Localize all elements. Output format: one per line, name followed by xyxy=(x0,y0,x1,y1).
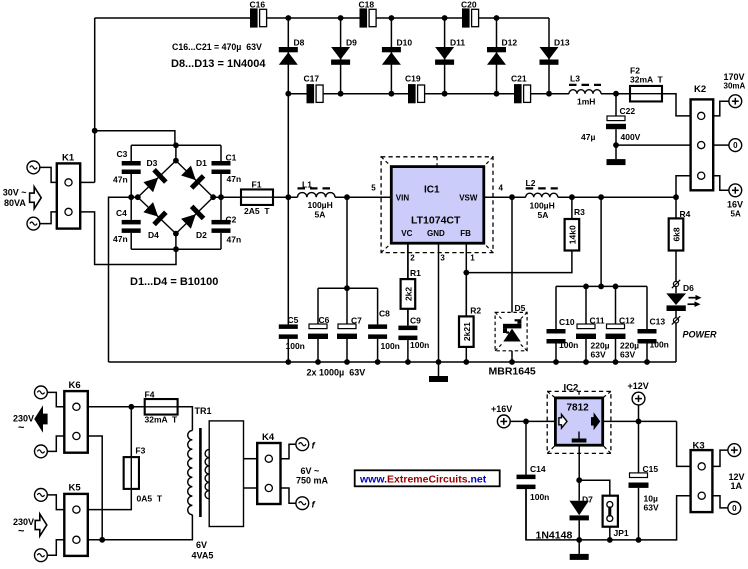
wire GND pin down xyxy=(438,243,440,362)
diode D8 vertical branch xyxy=(287,18,289,94)
node D11 bottom xyxy=(442,91,448,97)
svg-text:2k21: 2k21 xyxy=(462,322,472,341)
connector K3 xyxy=(691,450,713,512)
svg-text:D5: D5 xyxy=(515,303,526,313)
node bridge right frame xyxy=(218,194,224,200)
svg-text:16V: 16V xyxy=(727,200,743,210)
svg-text:C1: C1 xyxy=(226,153,237,163)
wire bottom mains to TR1 primary bottom xyxy=(88,515,193,540)
svg-text:1mH: 1mH xyxy=(577,97,595,107)
svg-text:C19: C19 xyxy=(405,74,421,84)
bridge frame top edge xyxy=(131,144,221,146)
svg-text:100n: 100n xyxy=(530,492,549,502)
svg-text:C15: C15 xyxy=(643,464,659,474)
capacitor C17 xyxy=(307,84,315,103)
node D5 ground xyxy=(509,359,515,365)
svg-text:C7: C7 xyxy=(351,316,362,326)
capacitor C3 47n xyxy=(130,145,132,161)
wire K6 pin1 to F4 xyxy=(88,406,145,408)
terminal mains input bottom sine xyxy=(27,217,40,230)
node R2 ground xyxy=(463,359,469,365)
connector K5 xyxy=(64,494,88,556)
capacitor C10 100n xyxy=(555,286,557,329)
diode D4 bridge lower-left xyxy=(138,197,176,233)
svg-text:C22: C22 xyxy=(620,106,636,116)
fuse F2 32mA T xyxy=(630,86,662,102)
wire AC feed to bridge top xyxy=(95,131,175,146)
wire K2 pin1 to 170V terminal xyxy=(713,101,729,116)
bridge frame bottom edge xyxy=(131,248,221,250)
node C12 ground xyxy=(613,359,619,365)
svg-text:6k8: 6k8 xyxy=(672,227,682,241)
wire K1 pin2 to bridge bottom xyxy=(80,212,176,265)
transformer TR1 secondary box xyxy=(209,421,243,527)
svg-text:C3: C3 xyxy=(117,149,128,159)
wire multiplier lower rail segment 3 xyxy=(425,93,514,95)
svg-text:JP1: JP1 xyxy=(614,528,629,538)
svg-text:0: 0 xyxy=(733,141,738,150)
transformer TR1 secondary winding xyxy=(205,449,209,498)
svg-text:+12V: +12V xyxy=(628,381,649,391)
terminal K6 sine bottom xyxy=(35,445,48,458)
svg-text:63V: 63V xyxy=(644,503,659,513)
svg-text:30V ~: 30V ~ xyxy=(3,188,27,198)
wire F3 to K5 pin1 xyxy=(88,489,132,510)
svg-text:C13: C13 xyxy=(650,317,666,327)
svg-text:30mA: 30mA xyxy=(724,82,746,91)
node output caps branch xyxy=(598,194,604,200)
svg-text:63V: 63V xyxy=(620,350,635,360)
wire K4 pin1 to f terminal xyxy=(281,444,296,459)
op-amp IC2 7812 dashed outline xyxy=(547,391,611,453)
svg-text:GND: GND xyxy=(427,229,445,238)
node D10 top xyxy=(389,15,395,21)
svg-text:K2: K2 xyxy=(694,84,706,95)
terminal K6 sine top xyxy=(35,386,48,399)
node D10 bottom xyxy=(389,91,395,97)
fuse F4 32mA T xyxy=(145,399,178,415)
svg-text:C18: C18 xyxy=(359,0,375,10)
svg-text:FB: FB xyxy=(460,229,471,238)
svg-text:C5: C5 xyxy=(288,315,299,325)
wire IC2 gnd pin down xyxy=(578,445,580,501)
wire L2 to K2 pin3 rail xyxy=(558,196,676,198)
node C7 ground xyxy=(344,359,350,365)
wire TR1 secondary to K4 pin1 xyxy=(244,458,258,460)
node C5 ground xyxy=(285,359,291,365)
transformer TR1 core xyxy=(199,428,202,517)
svg-text:LT1074CT: LT1074CT xyxy=(411,215,461,227)
svg-text:D6: D6 xyxy=(683,283,694,293)
svg-text:VSW: VSW xyxy=(459,194,478,203)
connector K2 xyxy=(691,99,714,190)
svg-text:D8...D13 = 1N4004: D8...D13 = 1N4004 xyxy=(171,58,266,70)
wire output to K3 pin1 xyxy=(677,421,691,466)
ground rail xyxy=(109,361,677,363)
node D7 JP1 junction xyxy=(576,477,582,483)
svg-text:D3: D3 xyxy=(147,158,158,168)
svg-text:C21: C21 xyxy=(511,74,527,84)
svg-text:750 mA: 750 mA xyxy=(296,476,329,486)
svg-text:R2: R2 xyxy=(470,306,481,316)
wire K3 pin2 to 0 terminal xyxy=(712,496,728,508)
svg-text:D1: D1 xyxy=(196,158,207,168)
svg-text:14k0: 14k0 xyxy=(567,225,577,244)
node VSW to D5 xyxy=(509,194,515,200)
wire VIN node down to cap link xyxy=(346,197,348,288)
jumper JP1 xyxy=(603,496,618,527)
capacitor C14 100n xyxy=(525,421,527,474)
op-amp IC1 LT1074CT dashed outline xyxy=(381,157,493,253)
terminal 170V 30mA xyxy=(729,95,742,108)
wire K6 pin2 down xyxy=(88,436,102,540)
node D13 bottom xyxy=(546,91,552,97)
svg-text:63V: 63V xyxy=(591,350,606,360)
svg-text:5A: 5A xyxy=(315,210,326,220)
capacitor C12 220u 63V xyxy=(615,286,617,324)
terminal 16V 5A xyxy=(729,184,742,197)
svg-text:C4: C4 xyxy=(116,208,127,218)
wire junction to JP1 xyxy=(579,480,610,496)
wire D6 to ground rail xyxy=(675,323,677,362)
svg-text:1: 1 xyxy=(470,254,475,263)
capacitor C8 100n xyxy=(377,288,379,324)
wire multiplier lower rail segment 4 to L3 xyxy=(531,93,569,95)
capacitor C2 47n xyxy=(220,197,222,220)
node multiplier feed junction xyxy=(285,194,291,200)
terminal K5 sine top xyxy=(35,489,48,502)
svg-text:D10: D10 xyxy=(397,38,413,48)
svg-text:5: 5 xyxy=(371,184,376,193)
diode D2 bridge lower-right xyxy=(176,197,213,233)
capacitor C15 10u 63V xyxy=(638,421,640,473)
node D8 top xyxy=(285,15,291,21)
svg-text:IC2: IC2 xyxy=(564,383,579,394)
diode D5 MBR1645 schottky with dashed box xyxy=(495,312,527,350)
svg-text:C16...C21 = 470µ 63V: C16...C21 = 470µ 63V xyxy=(172,42,262,52)
svg-text:5A: 5A xyxy=(731,210,741,219)
arrow IC2 input xyxy=(559,414,567,428)
wire K4 pin2 to f terminal xyxy=(281,488,296,503)
node D9 top xyxy=(338,15,344,21)
wire VSW output xyxy=(484,196,526,198)
arrow input direction xyxy=(30,187,42,209)
svg-text:L1: L1 xyxy=(302,180,312,190)
svg-text:K6: K6 xyxy=(69,380,81,391)
wire VSW node down to D5 xyxy=(511,197,513,362)
svg-text:L2: L2 xyxy=(526,178,536,188)
node C6 ground xyxy=(315,359,321,365)
wire bottom rail xyxy=(526,488,691,540)
capacitor C6 1000u xyxy=(317,288,319,324)
capacitor C21 xyxy=(514,84,522,103)
wire to K6 pin1 xyxy=(47,392,64,406)
wire to K5 pin1 xyxy=(47,495,64,510)
wire multiplier lower rail segment 2 xyxy=(323,93,408,95)
svg-text:3: 3 xyxy=(440,254,445,263)
wire K2 pin2 to 0 terminal xyxy=(713,144,729,146)
resistor R4 6k8 xyxy=(675,197,677,218)
capacitor C13 100n xyxy=(646,286,648,329)
node D12 bottom xyxy=(494,91,500,97)
node F3 branch xyxy=(128,404,134,410)
inductor L3 1mH xyxy=(569,90,601,94)
wire R3 bottom to FB node xyxy=(466,251,572,273)
terminal 0 output xyxy=(729,139,742,152)
svg-text:C17: C17 xyxy=(304,74,320,84)
wire top rail C18 to C20 xyxy=(377,17,463,19)
capacitor C20 xyxy=(462,8,470,27)
arrow mains out direction xyxy=(35,408,47,430)
svg-text:C10: C10 xyxy=(559,317,575,327)
svg-text:VC: VC xyxy=(401,229,412,238)
svg-text:6V: 6V xyxy=(196,540,207,550)
svg-text:D8: D8 xyxy=(294,38,305,48)
watermark box www.ExtremeCircuits.net xyxy=(355,470,500,486)
terminal +12V xyxy=(632,392,645,405)
wire to K6 pin2 xyxy=(47,436,64,451)
svg-text:80VA: 80VA xyxy=(4,198,26,208)
wire F1 to L1 xyxy=(273,196,298,198)
node JP1 bottom rail xyxy=(607,537,613,543)
arrow mains in direction xyxy=(35,514,47,536)
resistor R3 14k0 xyxy=(571,197,573,219)
svg-text:47µ: 47µ xyxy=(581,132,595,142)
svg-text:VIN: VIN xyxy=(396,194,410,203)
diode D12 vertical branch xyxy=(496,18,498,94)
svg-text:MBR1645: MBR1645 xyxy=(489,366,536,378)
svg-text:C8: C8 xyxy=(379,309,390,319)
svg-text:0: 0 xyxy=(732,504,737,513)
wire TR1 secondary to K4 pin2 xyxy=(244,487,258,489)
svg-text:6V ~: 6V ~ xyxy=(301,466,320,476)
wire sine terminal to K1 pin2 xyxy=(40,212,57,224)
svg-text:1A: 1A xyxy=(731,481,743,491)
svg-text:100µH: 100µH xyxy=(308,200,333,210)
diode D11 vertical branch xyxy=(444,18,446,94)
diode D7 1N4148 xyxy=(570,501,589,516)
svg-text:2k2: 2k2 xyxy=(403,287,413,301)
capacitor C4 47n xyxy=(130,197,132,220)
node D9 bottom xyxy=(338,91,344,97)
diode D3 bridge upper-left xyxy=(138,161,176,198)
pad above LED D6 xyxy=(673,281,678,286)
diode D1 bridge upper-right xyxy=(176,161,213,198)
wire 16V rail up to K2 pin3 xyxy=(676,176,691,198)
svg-text:C12: C12 xyxy=(619,316,635,326)
node FB feedback junction xyxy=(463,270,469,276)
wire frame top to diamond top vertex xyxy=(175,145,177,160)
node K5 pin2 junction xyxy=(99,537,105,543)
svg-text:D11: D11 xyxy=(450,38,465,48)
node R4 top K2 branch xyxy=(673,194,679,200)
svg-text:K1: K1 xyxy=(62,153,75,164)
terminal f bottom xyxy=(296,497,309,510)
terminal K5 sine bottom xyxy=(35,549,48,562)
diode D10 vertical branch xyxy=(390,18,392,94)
svg-text:D7: D7 xyxy=(582,495,593,505)
wire +16V to IC2 input xyxy=(510,420,555,422)
svg-text:4VA5: 4VA5 xyxy=(192,551,214,561)
wire caps branch down xyxy=(600,197,602,286)
capacitor C19 xyxy=(408,84,416,103)
svg-text:100n: 100n xyxy=(286,341,305,351)
node C8 ground xyxy=(375,359,381,365)
capacitor C7 1000u xyxy=(346,288,348,324)
svg-text:K5: K5 xyxy=(69,483,82,494)
node IC1 gnd xyxy=(436,359,442,365)
ground below regulator rail xyxy=(578,540,580,554)
svg-text:47n: 47n xyxy=(227,174,242,184)
transformer TR1 primary winding xyxy=(188,431,193,515)
svg-text:www.ExtremeCircuits.net: www.ExtremeCircuits.net xyxy=(359,474,487,486)
LED D6 power indicator xyxy=(675,287,677,294)
wire K2 pin3 to 16V terminal xyxy=(713,176,729,191)
capacitor C16 xyxy=(250,8,258,27)
pad below LED D6 xyxy=(673,318,678,323)
svg-text:C6: C6 xyxy=(319,315,330,325)
wire cap link rail xyxy=(318,287,378,289)
wire bridge left vertex to negative rail xyxy=(109,197,138,362)
node junction top-left vertical to bridge AC feed xyxy=(92,128,98,134)
ground below IC1 GND pin xyxy=(438,362,440,376)
IC2 internal ground tick xyxy=(578,432,580,439)
svg-text:K3: K3 xyxy=(693,441,705,452)
svg-text:D4: D4 xyxy=(148,230,159,240)
node D8 bottom xyxy=(285,91,291,97)
svg-text:4: 4 xyxy=(499,184,504,193)
resistor R1 2k2 xyxy=(407,243,409,279)
svg-text:100n: 100n xyxy=(381,341,400,351)
wire to K5 pin2 xyxy=(47,540,64,555)
node VIN branch xyxy=(344,194,350,200)
wire L1 to IC1 VIN xyxy=(335,196,391,198)
svg-text:TR1: TR1 xyxy=(195,406,212,416)
svg-text:+16V: +16V xyxy=(491,404,512,414)
svg-text:2x 1000µ 63V: 2x 1000µ 63V xyxy=(307,368,366,378)
resistor R2 2k21 xyxy=(465,273,467,317)
svg-text:47n: 47n xyxy=(113,234,128,244)
diode D13 xyxy=(540,60,559,65)
wire top rail C20 to D13 corner xyxy=(479,17,550,19)
wire multiplier lower rail segment 1 xyxy=(288,93,306,95)
node +12V branch xyxy=(636,419,642,425)
connector K1 xyxy=(57,163,80,228)
svg-text:100n: 100n xyxy=(650,340,669,350)
svg-text:7812: 7812 xyxy=(567,403,590,414)
node R3 top xyxy=(569,194,575,200)
node caps branch join xyxy=(598,284,604,290)
svg-text:C16: C16 xyxy=(250,0,266,10)
svg-text:C11: C11 xyxy=(590,316,605,326)
node bridge frame bottom xyxy=(173,246,179,252)
node bridge left vertex xyxy=(135,194,141,200)
svg-text:IC1: IC1 xyxy=(424,185,440,196)
node C13 ground xyxy=(644,359,650,365)
node bridge right vertex xyxy=(210,194,216,200)
fuse F1 2A5 T xyxy=(241,189,273,205)
wire top rail left segment from corner to C16 xyxy=(95,17,250,19)
svg-text:C9: C9 xyxy=(410,316,421,326)
svg-text:R3: R3 xyxy=(574,207,585,217)
node C14 branch xyxy=(523,419,529,425)
svg-text:100n: 100n xyxy=(559,340,578,350)
ground below C22 xyxy=(615,145,617,159)
inductor L1 100uH 5A xyxy=(298,193,336,198)
svg-text:C20: C20 xyxy=(461,0,477,10)
svg-text:C14: C14 xyxy=(530,464,546,474)
wire F2 to K2 pin1 xyxy=(662,94,691,116)
svg-text:170V: 170V xyxy=(724,72,745,82)
svg-text:100n: 100n xyxy=(410,340,429,350)
svg-text:D2: D2 xyxy=(196,230,207,240)
svg-text:D9: D9 xyxy=(346,38,357,48)
svg-text:2: 2 xyxy=(410,254,415,263)
capacitor C18 xyxy=(360,8,368,27)
node C11 top xyxy=(583,284,589,290)
wire L3 to F2 xyxy=(601,93,630,95)
wire left vertical from top rail down to K1 pin1 wire xyxy=(94,18,96,182)
wire JP1 to bottom rail xyxy=(609,527,611,540)
terminal mains input top sine xyxy=(27,161,40,174)
svg-text:F1: F1 xyxy=(252,180,262,190)
svg-text:R4: R4 xyxy=(680,209,691,219)
wire IC2 output xyxy=(603,420,677,422)
svg-text:32mA T: 32mA T xyxy=(145,415,179,425)
svg-text:L3: L3 xyxy=(570,74,580,84)
svg-text:C2: C2 xyxy=(226,215,237,225)
svg-text:0A5 T: 0A5 T xyxy=(137,494,163,504)
svg-text:~: ~ xyxy=(18,422,25,434)
wire bridge right vertex to F1 xyxy=(213,196,241,198)
svg-text:F3: F3 xyxy=(135,446,145,456)
svg-text:47n: 47n xyxy=(113,175,128,185)
svg-text:400V: 400V xyxy=(621,132,641,142)
node C22 bottom 0V xyxy=(613,142,619,148)
terminal 12V plus xyxy=(728,444,741,457)
arrow IC2 output xyxy=(592,414,600,428)
svg-text:F4: F4 xyxy=(145,390,155,400)
wire sine terminal to K1 pin1 xyxy=(40,167,57,182)
node C12 top xyxy=(613,284,619,290)
wire +12V terminal stub xyxy=(638,405,640,421)
capacitor C22 47u 400V xyxy=(615,94,617,116)
wire output caps top rail xyxy=(556,285,647,287)
connector K4 xyxy=(257,443,280,504)
wire multiplier feed vertical xyxy=(287,94,289,198)
capacitor C11 220u 63V xyxy=(585,286,587,324)
svg-text:D13: D13 xyxy=(554,38,570,48)
svg-text:K4: K4 xyxy=(262,432,275,443)
svg-text:D1...D4 = B10100: D1...D4 = B10100 xyxy=(130,276,218,288)
node C15 bottom rail xyxy=(636,537,642,543)
op-amp IC1 LT1074CT body xyxy=(391,167,484,244)
node C11 ground xyxy=(583,359,589,365)
node bridge left frame xyxy=(128,194,134,200)
connector K6 xyxy=(64,391,88,453)
capacitor C9 100n xyxy=(407,309,409,326)
inductor L2 100uH 5A xyxy=(526,193,558,197)
op-amp IC2 7812 body xyxy=(555,398,602,445)
wire K1 pin1 to bridge top feed xyxy=(80,181,95,183)
svg-text:5A: 5A xyxy=(538,210,549,220)
node diamond bottom vertex xyxy=(173,231,179,237)
svg-text:R1: R1 xyxy=(410,268,421,278)
capacitor C5 100n xyxy=(287,197,289,324)
wire diamond bottom vertex to frame bottom xyxy=(175,234,177,250)
svg-text:POWER: POWER xyxy=(683,330,718,340)
diode D9 vertical branch xyxy=(340,18,342,94)
